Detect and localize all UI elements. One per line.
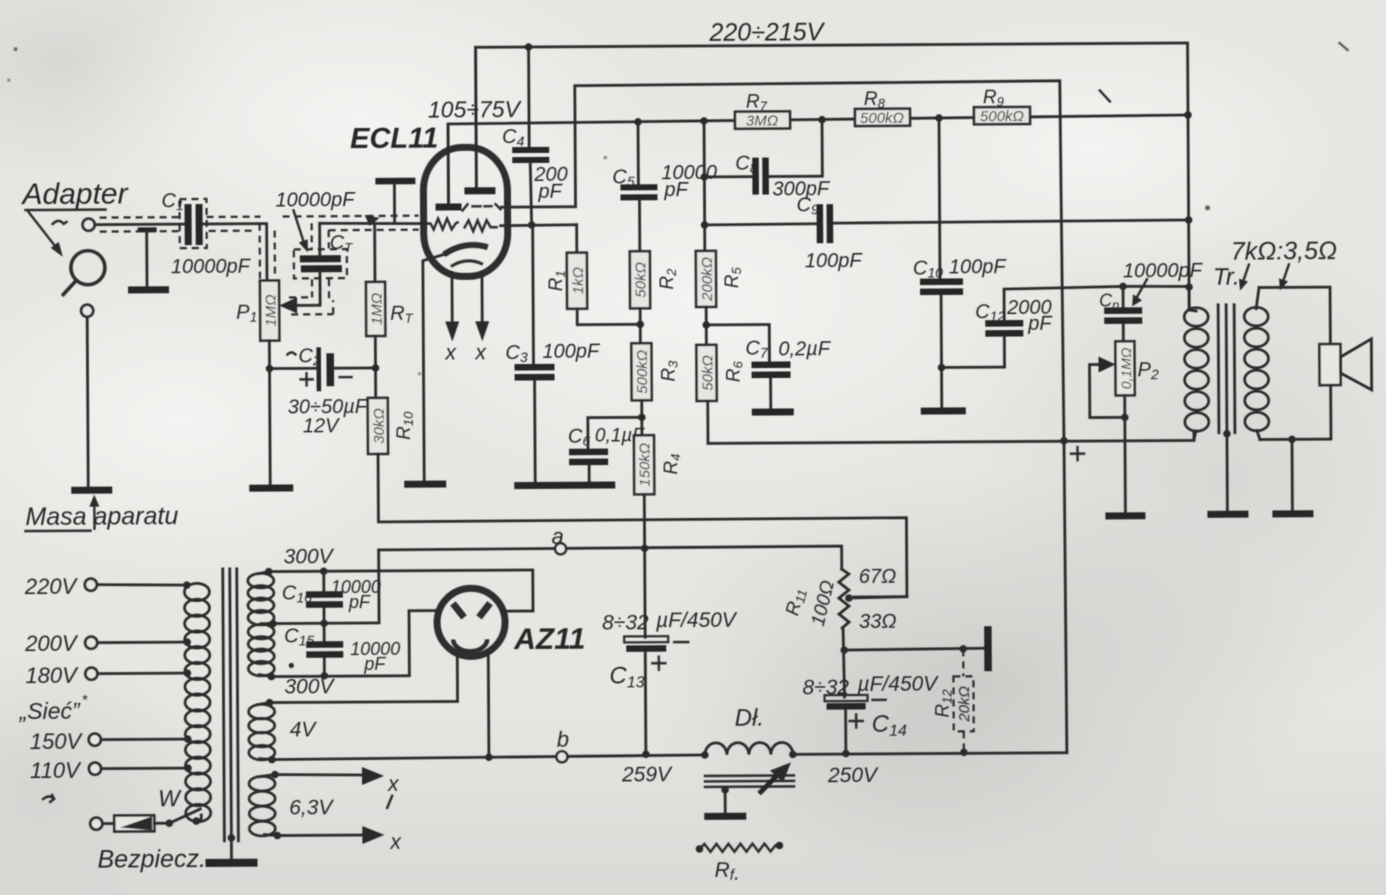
plus mark: [1071, 447, 1084, 460]
resistor R8: [855, 89, 910, 127]
svg-text:Rf.: Rf.: [715, 859, 740, 885]
node dot Cn top: [1119, 283, 1127, 291]
ground sideways: [984, 626, 992, 671]
wire R11 bottom junction: [843, 630, 844, 697]
svg-text:200V: 200V: [24, 631, 79, 656]
node dot R8/R9/C10: [935, 114, 943, 122]
svg-text:500kΩ: 500kΩ: [860, 110, 904, 127]
svg-text:Tr.: Tr.: [1213, 264, 1240, 291]
resistor R9: [974, 87, 1030, 125]
svg-text:500kΩ: 500kΩ: [634, 350, 651, 394]
capacitor C12: [941, 286, 1123, 367]
svg-text:250V: 250V: [827, 764, 879, 787]
shield dashes C1 to P1: [207, 217, 275, 280]
wire a-line: [379, 546, 842, 572]
resistor R2: [630, 251, 679, 308]
wire to side ground: [844, 648, 985, 650]
AZ11 filament: [453, 639, 487, 651]
node dot b/AZ11: [485, 753, 493, 761]
resistor R6: [696, 307, 746, 401]
ground Tr core: [1207, 430, 1249, 518]
svg-text:8÷32: 8÷32: [602, 611, 649, 634]
capacitor C8: [700, 120, 831, 201]
potentiometer P1: [236, 281, 280, 341]
grid cap bar: [375, 178, 415, 222]
4V winding: [249, 699, 318, 761]
capacitor C6: [568, 417, 646, 482]
capacitor CT: [275, 189, 356, 278]
svg-text:300V: 300V: [284, 545, 335, 568]
svg-text:Dł.: Dł.: [735, 705, 765, 732]
ground masa: [71, 487, 112, 494]
label Adapter with arrow: [20, 177, 129, 257]
resistor RT: [366, 224, 415, 398]
wire HV top tap to right anode: [269, 570, 533, 613]
node dot HV top tap: [265, 568, 273, 576]
tap 150V: [30, 728, 192, 754]
svg-text:180V: 180V: [25, 663, 79, 688]
wire b-line: [272, 755, 705, 760]
HV secondary winding upper: [248, 572, 274, 625]
wire 250V line: [793, 753, 1067, 755]
svg-text:20kΩ: 20kΩ: [956, 686, 973, 723]
filament zigzag: [427, 218, 497, 231]
node dot C9 line right: [1185, 216, 1193, 224]
svg-text:pF: pF: [348, 592, 371, 612]
wire CT top to grid: [320, 223, 427, 256]
stray mark top right: [1100, 90, 1110, 101]
node dot 4V bottom / b-line: [268, 756, 276, 764]
wire Cn line to right bus: [1123, 285, 1189, 289]
svg-text:a: a: [551, 524, 563, 549]
arrow to secondary: [1279, 264, 1289, 290]
wire R4 down through C13: [643, 494, 647, 637]
ground choke: [704, 786, 746, 820]
svg-text:300V: 300V: [284, 675, 335, 698]
ground P1: [249, 484, 293, 491]
wire filament to R1: [501, 223, 577, 227]
capacitor C1: [161, 190, 251, 279]
svg-text:150V: 150V: [30, 729, 84, 754]
potentiometer P2: [1089, 341, 1159, 519]
arrow to core: [1239, 265, 1249, 291]
small arrow on grid cable: [365, 215, 380, 226]
svg-text:150kΩ: 150kΩ: [636, 443, 653, 487]
resistor R7: [735, 91, 790, 129]
svg-text:12V: 12V: [303, 415, 340, 437]
wiper arrow CT to P1: [279, 272, 333, 314]
tube ECL11 envelope: [423, 147, 508, 277]
node dot C5 top: [634, 118, 642, 126]
svg-text:ECL11: ECL11: [350, 123, 438, 156]
HV secondary winding lower: [248, 624, 274, 676]
triode anode: [435, 127, 462, 210]
svg-text:67Ω: 67Ω: [859, 566, 897, 588]
resistor R3: [631, 343, 680, 400]
capacitor C4: [502, 47, 568, 225]
svg-text:AZ11: AZ11: [513, 623, 585, 656]
label Masa aparatu: [25, 494, 178, 531]
6.3V lead bottom with x: [277, 826, 402, 855]
svg-text:33Ω: 33Ω: [859, 611, 897, 633]
svg-text:3MΩ: 3MΩ: [746, 112, 778, 129]
capacitor C15: [284, 623, 400, 680]
svg-text:259V: 259V: [621, 763, 673, 786]
power transformer core: [223, 569, 239, 841]
wire R2-R3 junction: [639, 308, 642, 343]
tube AZ11 envelope: [437, 588, 505, 656]
shield tap to ground: [128, 227, 169, 293]
wire input to C1: [95, 223, 185, 226]
resistor R10: [368, 398, 416, 454]
svg-text:pF: pF: [1027, 313, 1053, 335]
fuse Bezpiecz: [90, 815, 206, 874]
svg-text:µF/450V: µF/450V: [856, 673, 939, 697]
pentode grid dashes: [463, 204, 501, 210]
wire bus 220-215V top: [476, 43, 1190, 311]
node dot bus A / C4: [525, 43, 533, 51]
node dot HV bottom tap: [268, 673, 276, 681]
wire P1 bottom: [268, 341, 272, 486]
svg-text:„Sieć”: „Sieć”: [19, 698, 82, 724]
wire mid tap to a-line: [273, 550, 379, 624]
node b: [556, 751, 567, 762]
svg-text:µF/450V: µF/450V: [655, 609, 738, 633]
resistor R1: [546, 224, 641, 325]
output transformer Tr primary: [1184, 287, 1209, 440]
svg-text:50kΩ: 50kΩ: [632, 262, 649, 298]
capacitor C10: [912, 118, 1008, 415]
wire masa terminal to ground: [87, 317, 88, 488]
tap 220V: [24, 573, 191, 599]
ground secondary: [1272, 439, 1313, 517]
svg-text:x: x: [389, 831, 402, 854]
svg-text:100pF: 100pF: [542, 341, 601, 363]
node a: [555, 543, 566, 554]
shield dashes input: [100, 217, 182, 232]
stray mark arrow: [43, 795, 54, 802]
svg-text:1MΩ: 1MΩ: [263, 294, 280, 326]
svg-text:8÷32: 8÷32: [802, 676, 849, 699]
node dot R7/R8/C8 right: [818, 116, 826, 124]
svg-text:Adapter: Adapter: [20, 177, 128, 211]
wire R10 to hum pot: [378, 451, 907, 600]
capacitor C13: [602, 609, 739, 755]
power transformer primary winding: [184, 583, 210, 821]
pentode anode: [464, 51, 496, 194]
speaker: [1319, 339, 1371, 390]
wire 105-75V anode line: [448, 115, 1189, 208]
svg-text:110V: 110V: [30, 758, 82, 783]
svg-text:6,3V: 6,3V: [289, 796, 334, 819]
svg-text:0,2µF: 0,2µF: [778, 338, 831, 360]
node dot a-line / R4: [641, 544, 649, 552]
svg-text:10000pF: 10000pF: [1123, 260, 1204, 282]
phono plug: [62, 251, 105, 296]
resistor R5: [695, 121, 744, 307]
svg-text:x: x: [474, 341, 487, 364]
node dot filament/C4: [528, 221, 536, 229]
resistor R4: [634, 435, 683, 494]
wire pentode anode feed from bus A: [474, 47, 478, 189]
svg-text:pF: pF: [537, 181, 563, 203]
stray dot right: [1205, 205, 1210, 210]
output transformer secondary: [1244, 287, 1269, 439]
cathode: [423, 245, 489, 482]
svg-text:200kΩ: 200kΩ: [699, 257, 716, 302]
ground C3/C6 shared: [514, 481, 615, 489]
wire screen/bus B: [501, 81, 1067, 756]
wire R3-R4 junction: [640, 400, 643, 435]
svg-text:7kΩ:3,5Ω: 7kΩ:3,5Ω: [1231, 237, 1337, 266]
svg-text:500kΩ: 500kΩ: [980, 108, 1024, 125]
stray specks: [14, 47, 18, 51]
svg-text:10000pF: 10000pF: [275, 189, 356, 211]
ground cathode: [404, 481, 446, 488]
svg-text:pF: pF: [663, 179, 689, 201]
svg-text:30kΩ: 30kΩ: [371, 408, 388, 444]
choke Dl: [701, 704, 797, 794]
terminal input hot: [83, 219, 95, 231]
node dot R5/R7/C8: [700, 117, 708, 125]
node dot HV mid tap: [269, 620, 277, 628]
svg-text:pF: pF: [363, 654, 386, 674]
node dot R5/R6/C7: [702, 321, 710, 329]
resistor R11 tapped zigzag: [782, 566, 907, 634]
tap 180V: [25, 662, 191, 688]
heater lead left with x: [444, 272, 460, 364]
wire secondary to speaker: [1259, 287, 1330, 344]
AZ11 anode right: [479, 603, 490, 617]
capacitor C16: [282, 567, 381, 627]
svg-text:W: W: [158, 785, 182, 811]
svg-text:10000pF: 10000pF: [171, 256, 252, 278]
capacitor C14: [802, 673, 939, 754]
wire R6 bottom to HT bus: [708, 398, 1194, 443]
wire HV bottom tap to left anode: [271, 611, 438, 677]
wire AZ11 cathode left to 4V: [269, 654, 457, 702]
svg-text:1kΩ: 1kΩ: [570, 267, 587, 294]
6.3V lead top with x: [275, 767, 400, 809]
svg-text:x: x: [387, 773, 400, 796]
capacitor C7: [706, 324, 832, 416]
svg-text:0,1MΩ: 0,1MΩ: [1118, 347, 1134, 389]
wire C1 to P1: [203, 224, 267, 281]
heater lead right with x: [474, 273, 490, 364]
capacitor C9: [701, 192, 1189, 273]
svg-text:1MΩ: 1MΩ: [369, 293, 386, 325]
capacitor Cn: [1099, 260, 1204, 342]
svg-text:100pF: 100pF: [805, 250, 864, 272]
svg-text:x: x: [444, 341, 457, 364]
node dot right bus vertical top: [1184, 111, 1192, 119]
resistor R12 dashed: [932, 649, 974, 750]
wire AZ11 cathode right to b: [487, 652, 490, 757]
node dot b/C13: [642, 750, 650, 758]
capacitor C3: [505, 225, 602, 484]
shield dashes grid line: [283, 216, 419, 249]
ground core: [205, 834, 257, 867]
output transformer core: [1218, 305, 1235, 434]
svg-text:50kΩ: 50kΩ: [699, 355, 716, 391]
tap 110V: [30, 757, 192, 783]
svg-text:Bezpiecz.: Bezpiecz.: [97, 845, 206, 874]
svg-text:0,1µF: 0,1µF: [595, 425, 645, 446]
tap 200V: [24, 630, 191, 656]
6.3V winding: [249, 770, 335, 839]
capacitor C2 electrolytic: [269, 345, 375, 438]
resistor Rf zigzag: [696, 842, 784, 885]
terminal input ground: [81, 305, 93, 317]
svg-text:100pF: 100pF: [949, 256, 1008, 278]
svg-text:220V: 220V: [24, 574, 79, 599]
switch W: [158, 785, 201, 827]
node dot HT bus: [1060, 437, 1068, 445]
capacitor C5: [612, 121, 717, 251]
svg-text:Masa aparatu: Masa aparatu: [25, 502, 178, 531]
AZ11 anode left: [453, 603, 464, 617]
svg-text:220÷215V: 220÷215V: [708, 18, 825, 47]
svg-text:b: b: [557, 727, 569, 752]
svg-text:4V: 4V: [290, 718, 318, 741]
